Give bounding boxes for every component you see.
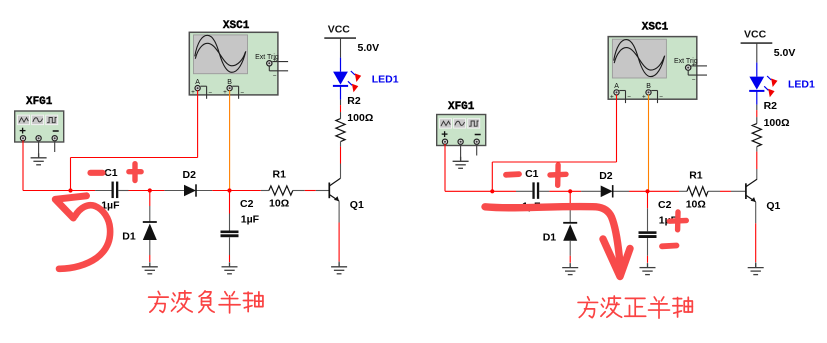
ground below C2 (left) — [222, 262, 238, 274]
svg-text:−: − — [240, 90, 244, 97]
annotation plus sign right of C1 (right) — [550, 165, 566, 185]
junction node D1 branch (right) — [568, 189, 572, 193]
junction node A-drop (right) — [490, 189, 494, 193]
wire VCC to LED (left) — [340, 38, 342, 58]
transistor Q1 (right) — [746, 179, 757, 202]
function generator XFG1 (left) — [15, 111, 64, 142]
svg-text:LED1: LED1 — [788, 79, 815, 91]
svg-text:D1: D1 — [543, 231, 557, 243]
wire scope channel B to main line (orange) (right) — [648, 95, 650, 192]
diode D2 (right) — [601, 186, 613, 198]
wire R2 to Q1 collector (right) — [756, 147, 758, 152]
capacitor C1 (left) — [112, 182, 114, 199]
resistor R2 (left) — [336, 119, 345, 142]
LED1 (left) — [333, 72, 348, 85]
junction node C2/B branch (left) — [227, 188, 231, 192]
ground below XFG1 (right) — [453, 157, 469, 169]
svg-text:Q1: Q1 — [350, 199, 364, 211]
stub XFG1 - terminal (right) — [476, 144, 478, 156]
annotation long stroke with down arrow (right) — [485, 207, 630, 277]
wire XFG1 + terminal to main line (left) — [22, 141, 24, 191]
svg-text:B: B — [227, 79, 232, 86]
svg-text:C1: C1 — [525, 168, 539, 180]
ground below XFG1 (left) — [31, 153, 47, 165]
svg-text:100Ω: 100Ω — [347, 112, 373, 124]
svg-text:XFG1: XFG1 — [26, 96, 53, 108]
ground below D1 (left) — [142, 262, 158, 274]
ground below D1 (right) — [562, 263, 578, 275]
svg-text:D2: D2 — [599, 170, 613, 182]
capacitor C1 (right) — [532, 182, 534, 199]
resistor R1 (right) — [687, 187, 708, 196]
svg-text:100Ω: 100Ω — [764, 117, 790, 129]
wire LED to R2 (right) — [756, 92, 758, 105]
wire Q1 emitter to ground (right) — [755, 202, 757, 223]
svg-text:+: + — [191, 89, 195, 96]
function generator XFG1 (right) — [437, 115, 486, 146]
ground below Q1 (right) — [748, 263, 764, 275]
main horizontal wire (left) — [23, 190, 95, 192]
annotation caption 方波正半轴 (right) — [578, 296, 692, 318]
annotation minus sign left of C1 (right) — [506, 171, 519, 177]
svg-text:+: + — [273, 57, 277, 64]
svg-text:10Ω: 10Ω — [686, 198, 706, 210]
oscilloscope XSC1 (right) — [608, 37, 697, 100]
annotation plus sign at C2 (right) — [669, 212, 686, 230]
svg-text:Q1: Q1 — [766, 200, 780, 212]
svg-text:D1: D1 — [122, 231, 136, 243]
junction node A-drop (left) — [68, 188, 72, 192]
svg-text:A: A — [614, 83, 619, 90]
svg-text:LED1: LED1 — [372, 74, 399, 86]
wire XFG1 common terminal (right) — [460, 144, 462, 161]
wire VCC to LED (right) — [756, 43, 758, 63]
diode D1 (left) — [149, 191, 151, 207]
resistor R2 (right) — [752, 124, 761, 147]
wire scope channel A to main line (right) — [616, 95, 618, 162]
capacitor C2 (right) — [647, 191, 649, 208]
svg-text:R2: R2 — [347, 95, 361, 107]
svg-text:−: − — [659, 94, 663, 101]
LED1 (right) — [749, 77, 764, 90]
svg-text:XSC1: XSC1 — [642, 21, 669, 33]
wire XFG1 + terminal to main line (right) — [444, 144, 446, 191]
VCC power rail bar (left) — [324, 37, 356, 39]
svg-text:−: − — [273, 73, 277, 80]
svg-text:R1: R1 — [273, 169, 287, 181]
svg-text:R1: R1 — [689, 169, 703, 181]
svg-text:B: B — [646, 83, 651, 90]
svg-text:−: − — [627, 94, 631, 101]
svg-text:VCC: VCC — [328, 24, 351, 36]
svg-text:D2: D2 — [183, 169, 197, 181]
junction node C2/B branch (right) — [645, 189, 649, 193]
svg-text:C1: C1 — [104, 167, 118, 179]
svg-text:+: + — [642, 93, 646, 100]
svg-text:C2: C2 — [240, 198, 254, 210]
resistor R1 (left) — [269, 186, 293, 195]
svg-text:C2: C2 — [658, 199, 672, 211]
ground below Q1 (left) — [331, 262, 347, 274]
svg-text:+: + — [692, 61, 696, 68]
wire scope channel A to main line (left) — [197, 90, 199, 157]
svg-text:VCC: VCC — [744, 29, 767, 41]
svg-text:XFG1: XFG1 — [448, 101, 475, 113]
oscilloscope XSC1 (left) — [189, 32, 278, 95]
annotation plus sign right of C1 (left) — [129, 164, 141, 181]
diode D1 (right) — [569, 191, 571, 207]
VCC power rail bar (right) — [741, 42, 773, 44]
wire XFG1 common terminal (left) — [38, 141, 40, 158]
annotation caption 方波负半轴 (left) — [149, 291, 263, 313]
svg-text:XSC1: XSC1 — [223, 20, 250, 32]
svg-text:1µF: 1µF — [241, 214, 260, 226]
svg-text:+: + — [610, 93, 614, 100]
stub XFG1 - terminal (left) — [54, 141, 56, 153]
annotation minus sign below C2 (right) — [662, 243, 677, 250]
annotation curved arrow (left) — [55, 196, 110, 269]
wire R2 to Q1 collector (left) — [340, 142, 342, 147]
svg-text:A: A — [195, 79, 200, 86]
capacitor C2 (left) — [229, 191, 231, 214]
main horizontal wire (right) — [445, 190, 516, 192]
svg-text:5.0V: 5.0V — [774, 47, 796, 59]
svg-text:+: + — [223, 89, 227, 96]
diode D2 (left) — [184, 185, 196, 197]
svg-text:10Ω: 10Ω — [269, 198, 289, 210]
wire LED to R2 (left) — [340, 87, 342, 100]
wire Q1 emitter to ground (left) — [338, 201, 340, 222]
svg-text:5.0V: 5.0V — [358, 42, 380, 54]
annotation minus sign left of C1 (left) — [91, 170, 103, 176]
transistor Q1 (left) — [329, 178, 340, 201]
junction node D1 branch (left) — [148, 188, 152, 192]
ground below C2 (right) — [640, 263, 656, 275]
svg-text:−: − — [692, 77, 696, 84]
svg-text:−: − — [208, 90, 212, 97]
svg-text:R2: R2 — [764, 100, 778, 112]
wire scope channel B to main line (orange) (left) — [229, 90, 231, 190]
